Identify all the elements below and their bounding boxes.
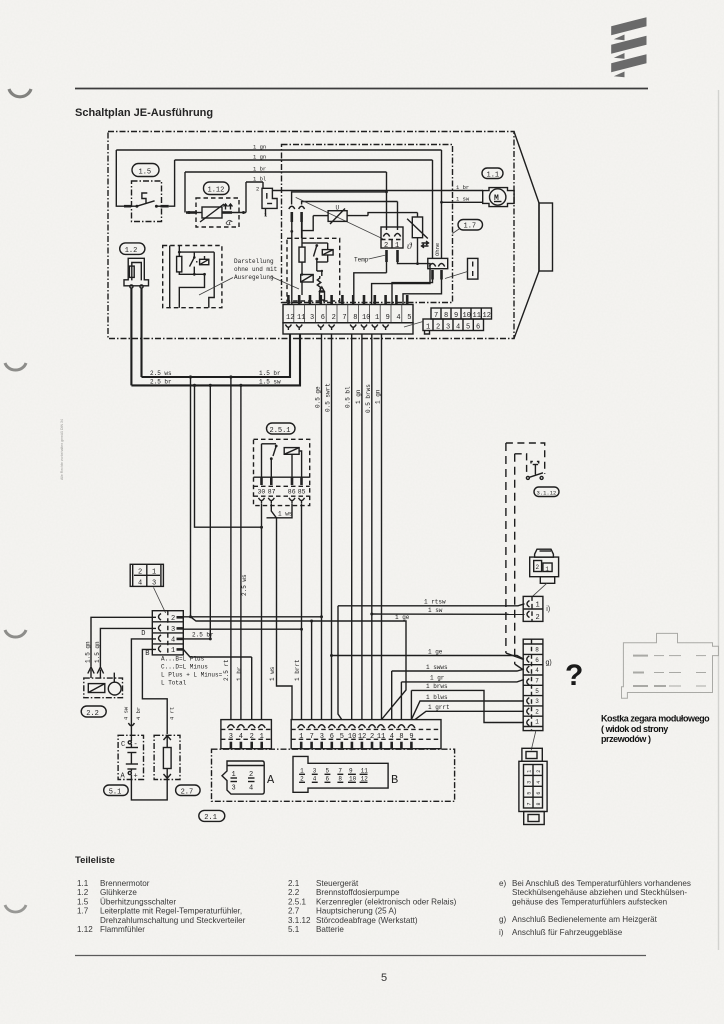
svg-text:2.5 br: 2.5 br (150, 378, 172, 385)
svg-text:1: 1 (260, 733, 264, 741)
svg-text:1 swws: 1 swws (426, 664, 448, 671)
svg-text:Ohne: Ohne (434, 243, 441, 256)
svg-text:Teileliste: Teileliste (75, 855, 115, 866)
svg-text:1 rtsw: 1 rtsw (424, 599, 446, 606)
svg-text:B: B (145, 650, 149, 658)
glow plug 1.2 (124, 258, 149, 288)
wire 1 swws to g4 (392, 664, 524, 720)
svg-text:3: 3 (446, 324, 450, 332)
label oval 1.7 (453, 220, 483, 234)
svg-text:86: 86 (288, 489, 296, 496)
svg-text:2: 2 (250, 733, 254, 741)
svg-text:Drehzahlumschaltung und Steckv: Drehzahlumschaltung und Steckverteiler (100, 916, 246, 925)
relay pin stubs (262, 477, 302, 485)
svg-text:2.7: 2.7 (288, 907, 300, 916)
glow plug wire ws down (140, 288, 142, 377)
svg-text:1: 1 (171, 647, 175, 655)
svg-text:1.5: 1.5 (77, 897, 89, 906)
wire 1 gn (second) (175, 159, 433, 161)
Eberspaecher logo bar 3 (611, 54, 646, 72)
svg-text:Ausregelung: Ausregelung (234, 274, 274, 281)
svg-text:Steckhülsengehäuse abziehen un: Steckhülsengehäuse abziehen und Steckhül… (512, 888, 687, 897)
svg-text:1: 1 (395, 242, 399, 250)
U regulator box (328, 205, 347, 225)
wire thin diagonal to temp clip (296, 197, 383, 238)
svg-text:11: 11 (297, 314, 305, 322)
svg-text:1.2: 1.2 (125, 247, 138, 255)
Ohne pin drops (392, 280, 442, 305)
wire 1.5 right riser (169, 160, 175, 206)
label oval 5.1 (104, 785, 129, 797)
svg-text:3.1.12: 3.1.12 (288, 916, 311, 925)
terminal legend text (161, 656, 223, 687)
wire pin6 0.5 ge (315, 334, 324, 720)
Eberspaecher logo bar 2 (611, 36, 646, 54)
pcb sensor element (320, 292, 325, 300)
svg-text:2.2: 2.2 (288, 888, 300, 897)
Eberspaecher logo triangle 3 (614, 72, 625, 78)
terminal strip 1.7 (283, 305, 413, 335)
pcb inner dashed box (287, 238, 340, 301)
wire pin2 0.5 swrt (325, 334, 332, 720)
temp sensor theta (407, 213, 429, 264)
wire pin8 0.5 bl (345, 334, 352, 720)
svg-text:1.12: 1.12 (208, 187, 225, 195)
svg-text:g): g) (546, 660, 552, 667)
wire to A3 (223, 377, 231, 720)
svg-text:2.5 ws: 2.5 ws (241, 574, 248, 596)
svg-text:1.5 sw: 1.5 sw (259, 378, 281, 385)
svg-text:ohne und mit: ohne und mit (234, 266, 277, 273)
wire 1 brws jog to g1 (411, 683, 524, 722)
svg-text:C...D=L Minus: C...D=L Minus (161, 664, 208, 671)
svg-text:U: U (336, 205, 340, 212)
relay clips (259, 498, 305, 504)
Kostka annotation text (601, 714, 710, 745)
svg-text:1 brws: 1 brws (426, 683, 448, 690)
battery bottom wire to fuse (131, 775, 167, 800)
relay representation dashed box (163, 246, 222, 308)
connector symbol I-I (445, 258, 478, 279)
svg-text:4: 4 (313, 776, 317, 783)
heater control plug drawing (530, 549, 559, 596)
svg-text:1.7: 1.7 (464, 223, 477, 231)
svg-text:1.7: 1.7 (77, 907, 89, 916)
dashed link wires to g (506, 443, 524, 670)
terminal strip numbers (286, 314, 411, 322)
svg-text:7: 7 (527, 802, 533, 805)
wire pin9 1 gn (330, 334, 382, 720)
svg-text:3: 3 (171, 626, 175, 634)
relay pin 86 jog (267, 504, 293, 518)
wire 2.5 br / 1.5 sw (pin11) (131, 334, 300, 387)
label oval 1.2 (120, 243, 145, 255)
heater flange rectangle (539, 203, 553, 271)
svg-text:4 br: 4 br (135, 707, 142, 720)
svg-text:4: 4 (171, 637, 175, 645)
svg-text:6: 6 (535, 657, 539, 664)
svg-text:4: 4 (239, 733, 243, 741)
D pin1 wire right (183, 649, 251, 719)
svg-text:9: 9 (409, 733, 413, 741)
svg-text:4: 4 (138, 580, 142, 588)
annotation Darstellung ohne und mit Ausregelung (199, 258, 299, 295)
svg-text:8: 8 (338, 776, 342, 783)
svg-text:6: 6 (326, 776, 330, 783)
svg-text:1.1: 1.1 (77, 879, 89, 888)
svg-text:85: 85 (298, 489, 306, 496)
U box wires (302, 213, 418, 239)
svg-text:6: 6 (536, 792, 542, 795)
svg-text:2.5 br: 2.5 br (192, 632, 214, 639)
control unit 1.7 box (282, 145, 453, 303)
svg-text:2: 2 (171, 615, 175, 623)
svg-text:1 gn: 1 gn (375, 389, 382, 404)
main fuse 2.7 (154, 735, 180, 779)
svg-text:8: 8 (535, 647, 539, 654)
svg-text:2.5.1: 2.5.1 (288, 897, 307, 906)
svg-text:1 bl: 1 bl (253, 176, 266, 183)
relay pin 30 wire (260, 504, 263, 720)
wire 1.12 left (185, 172, 202, 214)
connector strip A (3 4 2 1) (221, 720, 272, 749)
label oval 2.5.1 (267, 423, 296, 435)
svg-text:4 rt: 4 rt (169, 707, 176, 720)
svg-text:11: 11 (361, 768, 369, 775)
clock module connector (gray) (622, 633, 719, 698)
svg-text:5: 5 (326, 768, 330, 775)
svg-text:10: 10 (362, 314, 370, 322)
node clip pin 11 top (299, 206, 305, 238)
control unit 2.1 box (212, 749, 455, 801)
pcb feeds to strip (310, 295, 342, 301)
D pin3 wire right (183, 628, 301, 630)
diagnosis switch 3.1.12 (506, 443, 545, 479)
svg-text:2: 2 (138, 569, 142, 577)
strip feed stubs above (288, 295, 407, 305)
svg-text:Anschluß für Fahrzeuggebläse: Anschluß für Fahrzeuggebläse (512, 928, 623, 937)
svg-text:0.5 bl: 0.5 bl (345, 386, 352, 408)
svg-text:3: 3 (527, 781, 533, 784)
svg-text:g): g) (499, 915, 507, 924)
Eberspaecher logo triangle 1 (614, 35, 625, 41)
svg-text:10: 10 (349, 776, 357, 783)
svg-text:Brennermotor: Brennermotor (100, 879, 150, 888)
svg-text:Hauptsicherung (25 A): Hauptsicherung (25 A) (316, 907, 397, 916)
glow plug wire br down (130, 288, 132, 385)
svg-text:1: 1 (535, 719, 539, 726)
svg-text:Anschluß Bedienelemente am Hei: Anschluß Bedienelemente am Heizgerät (512, 915, 658, 924)
overheat switch 1.5 (124, 181, 169, 222)
flame detector connector 2/1 (256, 182, 277, 219)
pcb switch (302, 243, 318, 268)
svg-text:3: 3 (320, 733, 324, 741)
svg-text:4: 4 (396, 314, 400, 322)
svg-text:5: 5 (527, 792, 533, 795)
fuel pump 2.2 (84, 667, 123, 698)
svg-text:2: 2 (300, 776, 304, 783)
label oval 1.1 (482, 168, 503, 180)
svg-text:1 br: 1 br (456, 184, 469, 191)
svg-text:Steuergerät: Steuergerät (316, 879, 359, 888)
footer rule (75, 955, 646, 957)
wire riser pin11 (302, 202, 398, 205)
temp wire joins (354, 262, 430, 304)
svg-text:Temp: Temp (354, 257, 369, 264)
wire 1 sw to motor (442, 201, 484, 203)
svg-text:1: 1 (426, 324, 430, 332)
binder hole 1 (9, 89, 31, 97)
svg-text:7: 7 (342, 314, 346, 322)
terminal strip clips (285, 325, 388, 331)
D pin4 wire left to battery (131, 639, 156, 741)
label oval 1.12 (204, 182, 230, 195)
svg-text:87: 87 (268, 489, 276, 496)
temp connector risers (385, 172, 397, 230)
svg-text:D: D (141, 630, 145, 638)
svg-text:7: 7 (338, 768, 342, 775)
svg-text:3: 3 (535, 698, 539, 705)
connector housing A (222, 761, 264, 794)
svg-text:Darstellung: Darstellung (234, 258, 274, 265)
external connector block 7-12/1-6 (431, 308, 492, 320)
connector 2x2 (2 1 / 4 3) (130, 564, 165, 613)
svg-text:2: 2 (535, 708, 539, 715)
svg-text:2.1: 2.1 (204, 814, 217, 822)
svg-text:1 gn: 1 gn (253, 154, 266, 161)
svg-text:2: 2 (256, 186, 259, 193)
label oval 2.2 (81, 706, 106, 718)
svg-text:1: 1 (545, 566, 549, 573)
svg-text:5.1: 5.1 (288, 925, 300, 934)
svg-text:1: 1 (527, 770, 533, 773)
Eberspaecher logo triangle 2 (614, 53, 625, 59)
svg-text:1 gr: 1 gr (430, 675, 445, 682)
wire B7 drop (311, 621, 313, 720)
svg-text:B: B (391, 773, 398, 787)
svg-text:8: 8 (353, 314, 357, 322)
heater unit outline (108, 132, 539, 339)
svg-text:12: 12 (286, 314, 294, 322)
pcb relay coil (317, 243, 333, 262)
wire tap 2.5 br to D4 (209, 385, 211, 639)
svg-text:10: 10 (348, 733, 356, 741)
svg-text:6: 6 (330, 733, 334, 741)
svg-text:Glühkerze: Glühkerze (100, 888, 137, 897)
pcb lower coil (301, 273, 314, 295)
svg-text:Flammfühler: Flammfühler (100, 925, 145, 934)
svg-text:5: 5 (407, 314, 411, 322)
svg-text:7: 7 (310, 733, 314, 741)
svg-text:Batterie: Batterie (316, 925, 344, 934)
svg-text:1: 1 (536, 602, 540, 610)
svg-text:5: 5 (381, 972, 387, 984)
svg-text:i): i) (546, 606, 550, 613)
node clip pin 12 top (289, 206, 295, 304)
external connector block lower row (423, 319, 484, 334)
wire tap to D2 (190, 377, 192, 617)
wire riser pin12 (292, 192, 387, 205)
svg-text:2: 2 (332, 314, 336, 322)
svg-text:1 brrt: 1 brrt (294, 659, 301, 681)
svg-text:5: 5 (340, 733, 344, 741)
svg-text:1.2: 1.2 (77, 888, 89, 897)
svg-text:2: 2 (436, 324, 440, 332)
pointer g to plug (531, 731, 536, 751)
svg-text:3: 3 (310, 314, 314, 322)
svg-text:C: C (121, 741, 125, 749)
svg-text:12: 12 (358, 733, 366, 741)
svg-text:2: 2 (536, 770, 542, 773)
svg-text:2: 2 (536, 614, 540, 622)
wire 1 gn (top) (116, 149, 441, 151)
wire 1 br to motor (272, 190, 483, 192)
wire 2.5 ws / 1.5 br (pin12) (142, 334, 291, 379)
pcb triangle (319, 287, 324, 291)
relay pin 87 wire 1 ws (271, 504, 292, 720)
svg-text:2.5 ws: 2.5 ws (150, 370, 172, 377)
parts list column 2 (288, 879, 457, 934)
wire 1 gr to g7 (401, 675, 524, 720)
wire 1 rtsw (338, 599, 525, 720)
svg-text:8: 8 (399, 733, 403, 741)
connector i (2 pin) (523, 596, 550, 622)
svg-text:1: 1 (375, 314, 379, 322)
svg-text:2.7: 2.7 (181, 789, 194, 797)
svg-text:4 sw: 4 sw (123, 706, 130, 720)
svg-text:9: 9 (349, 768, 353, 775)
svg-text:Brennstoffdosierpumpe: Brennstoffdosierpumpe (316, 888, 400, 897)
svg-text:1 gn: 1 gn (253, 144, 266, 151)
svg-text:L Total: L Total (161, 680, 187, 687)
wire to A4 (236, 385, 248, 719)
wire 1 br (185, 171, 387, 173)
svg-text:?: ? (565, 659, 583, 692)
svg-text:Bei Anschluß des Temperaturfüh: Bei Anschluß des Temperaturfühlers vorha… (512, 879, 691, 888)
svg-text:4: 4 (456, 324, 460, 332)
wire pin1 0.5 brws (365, 334, 374, 720)
wire 1 sw (372, 607, 525, 615)
label oval 2.7 (176, 785, 201, 797)
svg-text:( widok od strony: ( widok od strony (601, 724, 668, 734)
svg-text:A...B=L Plus: A...B=L Plus (161, 656, 205, 663)
svg-text:11: 11 (377, 733, 385, 741)
svg-text:1: 1 (152, 569, 156, 577)
svg-text:gehäuse des Temperaturfühlers: gehäuse des Temperaturfühlers aufstecken (512, 897, 667, 906)
D pin3 wire left to pump (100, 628, 156, 666)
pointer strip to block (404, 322, 423, 328)
svg-text:Kerzenregler (elektronisch ode: Kerzenregler (elektronisch oder Relais) (316, 897, 457, 906)
svg-text:e): e) (499, 879, 507, 888)
wire 1 grrt to g2 (415, 704, 524, 720)
svg-text:L Plus + L Minus=: L Plus + L Minus= (161, 672, 223, 679)
label oval 3.1.12 (534, 487, 559, 497)
svg-text:3: 3 (152, 580, 156, 588)
page edge shadow right (718, 90, 720, 950)
svg-text:3: 3 (232, 785, 236, 793)
svg-text:1.1: 1.1 (487, 172, 500, 180)
pcb wires (317, 262, 328, 276)
wire 1 blws to g3 (411, 694, 524, 720)
binder hole 4 (5, 905, 26, 912)
D pin4 wire right (183, 632, 214, 641)
svg-text:0.5 ge: 0.5 ge (315, 386, 322, 408)
svg-text:przewodów ): przewodów ) (601, 734, 651, 744)
label oval 1.5 (132, 164, 159, 177)
pcb zigzag (317, 276, 321, 289)
connector housing B (293, 756, 388, 792)
svg-text:3.1.12: 3.1.12 (537, 490, 557, 497)
D pin1 wire left to fuse (142, 649, 167, 734)
svg-text:Alle Rechte vorbehalten gemäß: Alle Rechte vorbehalten gemäß DIN 34 (60, 419, 64, 480)
svg-text:6: 6 (321, 314, 325, 322)
svg-text:Kostka zegara modułowego: Kostka zegara modułowego (601, 714, 710, 724)
connector g (8 pin) (523, 639, 552, 730)
pcb resistor (299, 238, 305, 274)
wire 1.5 left to node (116, 150, 124, 206)
svg-text:1.5 gn: 1.5 gn (85, 641, 92, 663)
svg-text:9: 9 (386, 314, 390, 322)
svg-text:1 blws: 1 blws (426, 694, 448, 701)
svg-text:0.5 swrt: 0.5 swrt (325, 383, 332, 412)
parts list column 1 (77, 879, 246, 934)
svg-text:3: 3 (313, 768, 317, 775)
svg-text:5: 5 (535, 688, 539, 695)
1.5 gn rotated labels (85, 641, 102, 663)
svg-text:4: 4 (536, 781, 542, 784)
wire 1 ge to g6 (332, 649, 525, 660)
svg-text:12: 12 (361, 776, 369, 783)
binder hole 3 (5, 630, 26, 637)
svg-text:3: 3 (229, 733, 233, 741)
svg-text:Überhitzungsschalter: Überhitzungsschalter (100, 897, 176, 906)
svg-text:1 br: 1 br (236, 666, 243, 681)
svg-text:1 ge: 1 ge (395, 614, 410, 621)
svg-text:Störcodeabfrage (Werkstatt): Störcodeabfrage (Werkstatt) (316, 916, 418, 925)
svg-text:1 grrt: 1 grrt (428, 704, 450, 711)
svg-text:2.1: 2.1 (288, 879, 300, 888)
svg-text:2: 2 (536, 564, 540, 571)
svg-text:4: 4 (535, 667, 539, 674)
header rule (75, 88, 648, 90)
battery feed arrow (123, 706, 135, 726)
connector D (4 pin) (141, 611, 183, 658)
Eberspaecher logo bar 1 (611, 17, 646, 35)
wire pin10 1 gn (355, 334, 362, 720)
binder hole 2 (5, 363, 26, 370)
relay terminal numbers (258, 489, 306, 496)
burner motor M (483, 188, 514, 207)
svg-text:1 sw: 1 sw (428, 607, 443, 614)
svg-text:Schaltplan JE-Ausführung: Schaltplan JE-Ausführung (75, 107, 213, 119)
svg-text:1 br: 1 br (253, 166, 266, 173)
Ohne risers to gn wires (433, 150, 443, 258)
svg-text:1.5: 1.5 (139, 169, 152, 177)
wire 1.12 right (222, 182, 246, 214)
diagnosis plug drawing (Kostka) (519, 748, 547, 824)
svg-text:5: 5 (466, 324, 470, 332)
battery 5.1 (118, 735, 143, 780)
temp connector 2/1 (381, 227, 403, 262)
svg-text:1 ge: 1 ge (428, 649, 443, 656)
relay pin 85 wire 1 brrt (300, 504, 303, 720)
svg-text:7: 7 (535, 678, 539, 685)
svg-text:1: 1 (300, 768, 304, 775)
svg-text:1 ws: 1 ws (269, 666, 276, 681)
svg-text:2.5.1: 2.5.1 (270, 427, 291, 435)
wire 1 bl (246, 181, 263, 183)
svg-text:4: 4 (390, 733, 394, 741)
